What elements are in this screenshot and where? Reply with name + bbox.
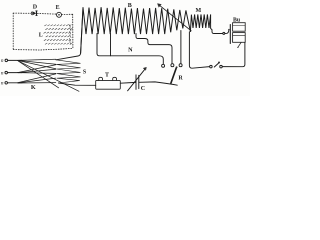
- buzzer Bu: [230, 23, 245, 48]
- svg-text:C: C: [141, 86, 145, 92]
- terminal n3: [5, 82, 22, 85]
- telegraph key: [214, 62, 220, 68]
- svg-text:n: n: [1, 70, 4, 76]
- terminal n2: [5, 71, 22, 74]
- wire tap3 from B valley x136: [136, 34, 172, 64]
- wire tap1 from B valley x97: [97, 34, 163, 64]
- svg-text:B: B: [128, 3, 132, 9]
- slider arrow over coil B: [158, 4, 192, 31]
- coil L (dashed winding): [44, 24, 73, 44]
- svg-text:n: n: [1, 58, 4, 64]
- wire tap4 from B right end: [180, 31, 182, 64]
- svg-text:N: N: [128, 47, 133, 54]
- key terminal right: [220, 65, 223, 68]
- wire M to buzzer terminal: [212, 30, 223, 34]
- svg-text:E: E: [56, 5, 60, 11]
- armature pivot dot: [228, 29, 229, 30]
- svg-text:L: L: [39, 33, 43, 39]
- wire tap2 from B valley x110.5: [110, 34, 112, 56]
- key terminal left: [210, 65, 213, 68]
- wire T to capacitor C: [120, 81, 136, 84]
- coil B (tall zigzag): [81, 7, 191, 53]
- svg-text:K: K: [31, 84, 36, 91]
- detector D: [31, 11, 37, 16]
- svg-text:S: S: [83, 69, 87, 75]
- antenna feed wire from B to S: [56, 8, 83, 60]
- wire S to telephone T: [59, 83, 96, 85]
- coil S (flat zigzag): [56, 60, 81, 83]
- terminal n1: [5, 59, 22, 62]
- coil M (small zigzag): [190, 14, 212, 31]
- variable capacitor C: [128, 67, 147, 91]
- svg-text:M: M: [195, 8, 201, 14]
- wire C to switch R pivot: [139, 82, 178, 85]
- commutator K crossing wires: [18, 59, 80, 91]
- selector switch R lever: [171, 66, 178, 83]
- buzzer terminal node: [223, 32, 225, 34]
- svg-text:T: T: [105, 73, 109, 79]
- svg-text:n: n: [1, 81, 4, 87]
- svg-text:D: D: [33, 5, 38, 11]
- wire buzzer down to key loop: [222, 42, 245, 66]
- telephone box T: [96, 77, 121, 89]
- wire terminal to buzzer armature: [225, 30, 229, 33]
- dotted antenna box: [13, 13, 73, 50]
- svg-text:R: R: [178, 76, 183, 82]
- meter E: [57, 12, 62, 17]
- selector switch R contacts: [162, 64, 183, 68]
- wire key back to coil M junction: [189, 32, 209, 68]
- svg-text:Bu: Bu: [233, 18, 241, 24]
